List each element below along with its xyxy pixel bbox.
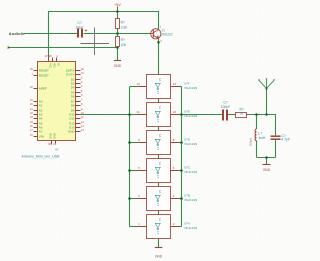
svg-text:74HC14N: 74HC14N bbox=[184, 170, 197, 174]
junction antenna node bbox=[265, 113, 268, 116]
svg-text:11: 11 bbox=[137, 110, 140, 114]
svg-text:GND: GND bbox=[49, 133, 53, 139]
inverter gate U?C 74HC14N bbox=[138, 159, 198, 183]
svg-text:U?D: U?D bbox=[184, 138, 191, 142]
svg-text:3.3k: 3.3k bbox=[121, 25, 128, 29]
inductor L1 1mH bbox=[249, 129, 266, 146]
svg-text:AREF: AREF bbox=[39, 87, 47, 91]
wire2 end tick bbox=[8, 47, 10, 49]
svg-text:4.7pF: 4.7pF bbox=[281, 137, 290, 141]
wire coil bottom bbox=[256, 141, 258, 158]
svg-text:1A: 1A bbox=[158, 134, 162, 137]
wire emitter down to gate1 top bbox=[158, 39, 160, 75]
wire left input rail bbox=[129, 87, 131, 227]
svg-text:U?B: U?B bbox=[184, 194, 190, 198]
junction input rail at gate3 bbox=[128, 141, 131, 144]
wire ground-side net left bbox=[8, 47, 118, 49]
svg-text:D4: D4 bbox=[71, 86, 75, 90]
svg-text:12: 12 bbox=[173, 82, 177, 86]
svg-text:74HC14N: 74HC14N bbox=[184, 86, 197, 90]
wire left rail to gate5 input bbox=[130, 198, 138, 200]
svg-text:10: 10 bbox=[173, 110, 177, 114]
ground GND3 bbox=[263, 165, 271, 173]
svg-text:U?E: U?E bbox=[184, 110, 190, 114]
svg-text:5V: 5V bbox=[56, 63, 58, 66]
junction output rail at gate3 bbox=[180, 141, 183, 144]
wire gate2 to gate3 bbox=[158, 127, 160, 131]
svg-text:D1/TX: D1/TX bbox=[66, 73, 75, 77]
wire +5V rail: chip VCC up, across, down to collector bbox=[49, 12, 159, 58]
wire +5V node to R1 bbox=[117, 12, 119, 19]
inverter gate U?E 74HC14N bbox=[137, 103, 198, 127]
svg-text:100nF: 100nF bbox=[221, 105, 231, 109]
svg-text:GND: GND bbox=[114, 64, 122, 68]
svg-text:1Y: 1Y bbox=[156, 231, 160, 234]
svg-text:GND: GND bbox=[155, 254, 163, 258]
svg-text:74HC14N: 74HC14N bbox=[184, 226, 197, 230]
wire to coil top bbox=[256, 115, 258, 130]
junction output rail at gate5 bbox=[180, 197, 183, 200]
capacitor C1 10uF bbox=[76, 21, 88, 38]
wire audio net C1 to divider node bbox=[84, 33, 118, 35]
inverter gate U?D 74HC14N bbox=[138, 131, 198, 155]
wire gate5 output to right rail bbox=[180, 198, 182, 200]
svg-text:L?: L? bbox=[258, 132, 262, 136]
inverter gate U?A 74HC14N bbox=[138, 215, 198, 239]
wire divider node to transistor base bbox=[118, 33, 151, 35]
resistor R2 10k bbox=[116, 37, 127, 47]
ground GND1 bbox=[114, 61, 122, 69]
wire gate1 to gate2 bbox=[158, 99, 160, 103]
svg-text:1k: 1k bbox=[240, 111, 244, 115]
svg-text:GND: GND bbox=[53, 133, 57, 139]
wire R2 to GND1 bbox=[117, 47, 119, 61]
antenna ANT1 bbox=[258, 79, 275, 90]
svg-text:A1: A1 bbox=[39, 104, 43, 108]
wire left rail to gate1 input bbox=[130, 86, 138, 88]
svg-text:D11: D11 bbox=[69, 117, 75, 121]
junction tank bottom node bbox=[265, 156, 268, 159]
svg-text:U?A: U?A bbox=[184, 222, 190, 226]
svg-text:Arduino_Mini_w/o_USB: Arduino_Mini_w/o_USB bbox=[22, 155, 61, 159]
wire left rail to gate3 input bbox=[130, 142, 138, 144]
junction input rail at gate4 bbox=[128, 169, 131, 172]
junction output rail at gate4 bbox=[180, 169, 183, 172]
svg-text:27: 27 bbox=[45, 54, 48, 58]
svg-text:74HC14N: 74HC14N bbox=[184, 142, 197, 146]
junction coil top node bbox=[255, 113, 258, 116]
junction +5V node bbox=[116, 10, 119, 13]
wire left rail to gate6 input bbox=[130, 226, 138, 228]
svg-text:1A: 1A bbox=[158, 162, 162, 165]
svg-text:R?: R? bbox=[121, 21, 125, 25]
wire antenna stem bbox=[266, 89, 268, 115]
svg-text:1A: 1A bbox=[158, 218, 162, 221]
svg-text:C?: C? bbox=[223, 100, 227, 104]
svg-text:1A: 1A bbox=[158, 190, 162, 193]
junction output rail at gate2 bbox=[180, 113, 183, 116]
U1 bottom pins GND bbox=[48, 133, 59, 152]
svg-text:10µF: 10µF bbox=[76, 25, 84, 29]
U1 right pins bbox=[66, 68, 85, 134]
wire gate3 output to right rail bbox=[180, 142, 182, 144]
svg-text:D6: D6 bbox=[71, 95, 75, 99]
junction divider mid node bbox=[116, 32, 119, 35]
svg-text:1A: 1A bbox=[158, 78, 162, 81]
inverter gate U?F 74HC14N bbox=[136, 75, 197, 99]
svg-text:VIN: VIN bbox=[39, 135, 44, 139]
svg-text:A7: A7 bbox=[39, 130, 43, 134]
junction input rail at gate2 bbox=[128, 113, 131, 116]
inverter gate U?B 74HC14N bbox=[138, 187, 198, 211]
svg-text:R?: R? bbox=[121, 38, 125, 42]
wire tank cap bottom bbox=[275, 140, 277, 157]
gray vertical line bbox=[94, 28, 96, 56]
svg-text:5V: 5V bbox=[55, 148, 58, 152]
svg-text:74HC14N: 74HC14N bbox=[184, 114, 197, 118]
svg-text:74HC14N: 74HC14N bbox=[184, 198, 197, 202]
capacitor C3 100nF bbox=[221, 100, 231, 120]
junction input rail at gate5 bbox=[128, 197, 131, 200]
svg-text:A4: A4 bbox=[39, 117, 43, 121]
wire gate6 output to right rail bbox=[180, 226, 182, 228]
resistor R3 1k bbox=[236, 108, 247, 118]
svg-text:RESET: RESET bbox=[39, 69, 49, 73]
wire gate2 output to right rail bbox=[180, 114, 182, 116]
svg-text:1Y: 1Y bbox=[156, 203, 160, 206]
svg-text:1A: 1A bbox=[158, 106, 162, 109]
wire left rail to gate4 input bbox=[130, 170, 138, 172]
wire right output rail bbox=[181, 87, 183, 227]
svg-text:1Y: 1Y bbox=[156, 175, 160, 178]
IC U1 Arduino Mini body bbox=[38, 62, 76, 141]
U1 top pins VCC/AVCC bbox=[45, 54, 59, 68]
junction R2 bottom node bbox=[116, 46, 119, 49]
svg-text:U?F: U?F bbox=[184, 82, 190, 86]
wire gate4 output to right rail bbox=[180, 170, 182, 172]
svg-text:100µH: 100µH bbox=[249, 138, 253, 146]
wire gate5 to gate6 bbox=[158, 211, 160, 215]
svg-text:D8: D8 bbox=[71, 104, 75, 108]
svg-text:GND: GND bbox=[263, 168, 271, 172]
svg-text:28: 28 bbox=[49, 54, 52, 58]
wire chip D10 to left rail bbox=[81, 114, 130, 116]
svg-text:GND: GND bbox=[68, 130, 76, 134]
wire audio net from label to C1 bbox=[24, 33, 78, 35]
wire C3 to R3 bbox=[228, 114, 236, 116]
capacitor C4 4.7pF bbox=[271, 134, 290, 142]
svg-text:1Y: 1Y bbox=[156, 147, 160, 150]
transistor T1 2N2222 NPN bbox=[151, 26, 173, 44]
svg-text:AVC: AVC bbox=[52, 63, 55, 68]
ground GND2 bbox=[155, 248, 163, 259]
wire right rail to C3 bbox=[182, 114, 223, 116]
wire left rail to gate2 input bbox=[130, 114, 138, 116]
wire tank to GND3 bbox=[266, 158, 268, 165]
svg-text:13: 13 bbox=[136, 82, 140, 86]
wire R3 to tank cap branch bbox=[247, 115, 276, 136]
svg-text:RESET: RESET bbox=[39, 74, 49, 78]
svg-text:C?: C? bbox=[77, 21, 81, 25]
wire tank bottom wire bbox=[257, 157, 276, 159]
U1 left pins bbox=[30, 68, 49, 139]
svg-text:1Y: 1Y bbox=[156, 91, 160, 94]
gray horizontal line bbox=[81, 43, 110, 45]
svg-text:10k: 10k bbox=[121, 43, 127, 47]
svg-text:1Y: 1Y bbox=[156, 119, 160, 122]
wire gate1 output to right rail bbox=[180, 86, 182, 88]
svg-text:AudioIn: AudioIn bbox=[9, 32, 25, 36]
svg-text:1mH: 1mH bbox=[258, 136, 266, 140]
wire gate6 to GND2 bbox=[158, 239, 160, 248]
wire gate4 to gate5 bbox=[158, 183, 160, 187]
wire gate3 to gate4 bbox=[158, 155, 160, 159]
wire R1 to R2 through node bbox=[117, 29, 119, 37]
svg-text:2N2222: 2N2222 bbox=[161, 33, 172, 37]
svg-text:U?C: U?C bbox=[184, 166, 191, 170]
svg-text:+5V: +5V bbox=[114, 3, 121, 7]
resistor R1 3.3k bbox=[116, 19, 128, 30]
